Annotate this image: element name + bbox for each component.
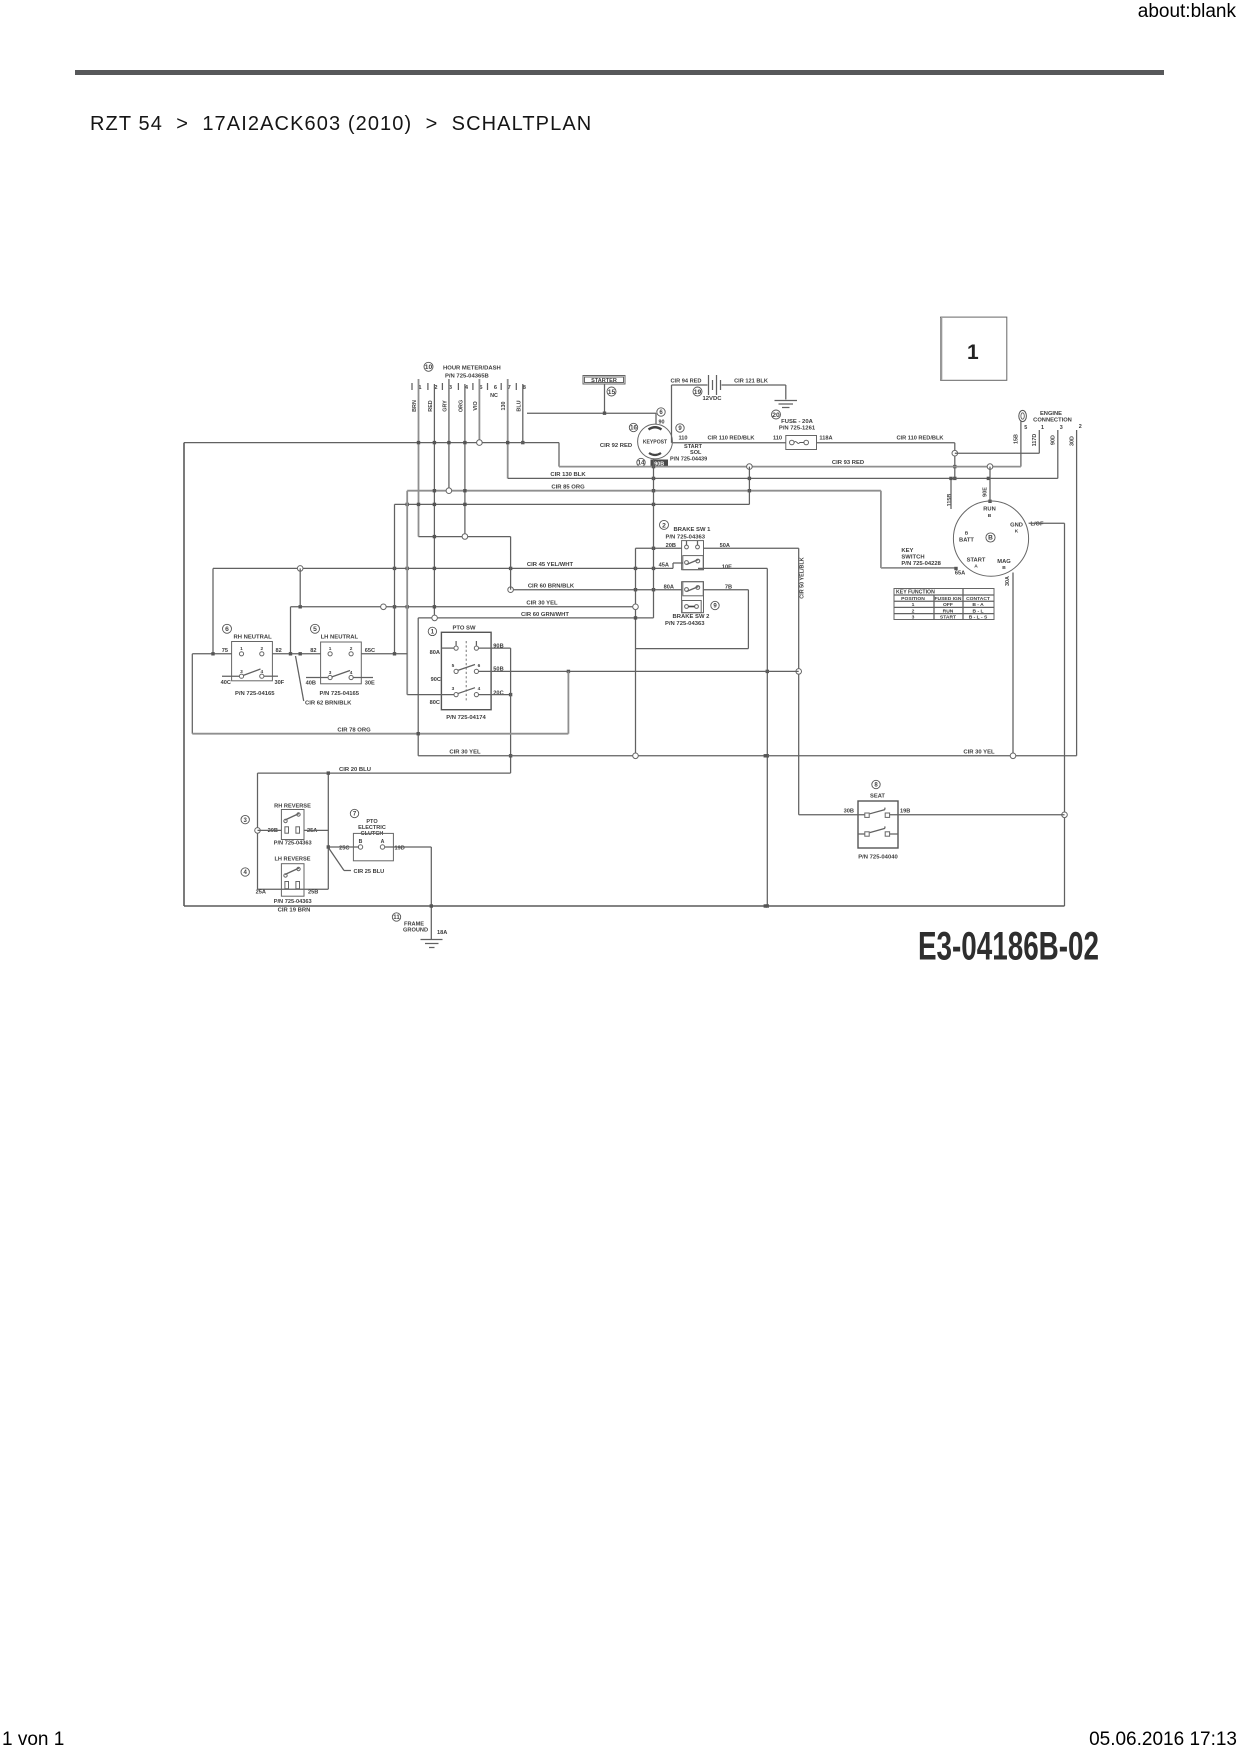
svg-text:12VDC: 12VDC: [703, 396, 723, 402]
svg-text:P/N 725-1261: P/N 725-1261: [779, 426, 816, 432]
svg-text:BRAKE SW 1: BRAKE SW 1: [674, 527, 712, 533]
svg-text:2: 2: [1079, 424, 1082, 430]
svg-text:9: 9: [678, 426, 682, 432]
svg-text:30A: 30A: [1005, 576, 1011, 586]
svg-text:5: 5: [313, 626, 317, 633]
svg-text:START: START: [940, 615, 956, 621]
svg-text:4: 4: [350, 670, 353, 676]
svg-text:130: 130: [501, 401, 507, 410]
svg-text:CIR 92 RED: CIR 92 RED: [600, 443, 632, 449]
svg-text:ORG: ORG: [458, 400, 464, 412]
svg-text:GROUND: GROUND: [403, 928, 428, 934]
svg-text:CIR 110 RED/BLK: CIR 110 RED/BLK: [707, 436, 755, 442]
svg-text:B: B: [988, 513, 992, 519]
svg-text:1: 1: [431, 630, 435, 636]
svg-text:65A: 65A: [955, 571, 965, 577]
svg-text:BRAKE SW 2: BRAKE SW 2: [673, 614, 711, 620]
svg-text:GND: GND: [1010, 523, 1023, 529]
svg-text:B: B: [988, 535, 993, 542]
svg-text:3: 3: [329, 670, 332, 676]
svg-text:9: 9: [713, 604, 717, 610]
svg-text:BRN: BRN: [412, 400, 418, 412]
svg-text:16: 16: [630, 426, 637, 432]
svg-text:90E: 90E: [983, 487, 989, 497]
svg-text:7: 7: [353, 812, 357, 818]
svg-text:KEY FUNCTION: KEY FUNCTION: [896, 590, 935, 596]
svg-text:NC: NC: [490, 393, 498, 399]
svg-text:3: 3: [244, 818, 248, 824]
svg-text:20: 20: [772, 412, 780, 419]
svg-text:110: 110: [678, 436, 687, 442]
svg-text:40B: 40B: [306, 681, 316, 687]
svg-text:30F: 30F: [275, 680, 285, 686]
svg-text:1: 1: [240, 646, 243, 652]
svg-text:19: 19: [694, 389, 702, 396]
svg-text:18A: 18A: [437, 930, 447, 936]
svg-text:VIO: VIO: [473, 401, 479, 410]
svg-text:2: 2: [350, 646, 353, 652]
svg-text:SWITCH: SWITCH: [901, 555, 924, 561]
svg-text:65C: 65C: [365, 648, 375, 654]
svg-text:L/OF: L/OF: [1030, 522, 1044, 528]
svg-text:CIR 50 YEL/BLK: CIR 50 YEL/BLK: [800, 557, 806, 598]
svg-text:PTO SW: PTO SW: [452, 626, 476, 632]
svg-text:CIR 30 YEL: CIR 30 YEL: [449, 750, 481, 756]
svg-text:6: 6: [659, 410, 663, 416]
svg-text:CIR 60 GRN/WHT: CIR 60 GRN/WHT: [521, 612, 569, 618]
svg-text:B: B: [1002, 565, 1006, 571]
svg-text:115B: 115B: [947, 494, 953, 507]
svg-text:BATT: BATT: [959, 538, 974, 544]
svg-text:CIR 78 ORG: CIR 78 ORG: [337, 728, 371, 734]
svg-text:CIR 93 RED: CIR 93 RED: [832, 460, 864, 466]
svg-text:SOL: SOL: [690, 450, 702, 456]
svg-text:25A: 25A: [256, 890, 266, 896]
svg-text:15: 15: [608, 389, 616, 396]
svg-text:4: 4: [478, 686, 481, 692]
svg-text:OFF: OFF: [943, 602, 953, 608]
svg-text:P/N 725-04363: P/N 725-04363: [274, 841, 312, 847]
svg-text:P/N 725-04363: P/N 725-04363: [274, 899, 312, 905]
svg-text:P/N 725-04365B: P/N 725-04365B: [445, 374, 489, 380]
svg-text:3: 3: [240, 669, 243, 675]
svg-text:RH NEUTRAL: RH NEUTRAL: [234, 635, 273, 641]
svg-text:90C: 90C: [431, 677, 441, 683]
svg-text:117D: 117D: [1032, 434, 1038, 447]
svg-text:FUSED IGN: FUSED IGN: [935, 596, 962, 602]
svg-text:90D: 90D: [1051, 435, 1057, 445]
svg-text:4: 4: [244, 870, 248, 876]
svg-text:RED: RED: [428, 400, 434, 412]
svg-text:40C: 40C: [221, 680, 231, 686]
svg-text:P/N 725-04228: P/N 725-04228: [901, 561, 941, 567]
svg-text:P/N 725-04165: P/N 725-04165: [235, 691, 275, 697]
svg-text:15B: 15B: [1014, 434, 1020, 444]
svg-text:1: 1: [967, 341, 979, 364]
svg-text:45A: 45A: [659, 563, 669, 569]
svg-text:CIR 62 BRN/BLK: CIR 62 BRN/BLK: [305, 701, 352, 707]
svg-text:P/N 725-04439: P/N 725-04439: [670, 457, 707, 463]
svg-text:SEAT: SEAT: [870, 794, 885, 800]
svg-text:RH REVERSE: RH REVERSE: [274, 804, 311, 810]
svg-text:B - L - S: B - L - S: [969, 615, 988, 621]
svg-text:MAG: MAG: [997, 559, 1011, 565]
svg-text:1: 1: [329, 646, 332, 652]
svg-text:CIR 94 RED: CIR 94 RED: [670, 379, 701, 385]
svg-text:HOUR METER/DASH: HOUR METER/DASH: [443, 366, 501, 372]
svg-text:10E: 10E: [722, 565, 732, 571]
svg-text:110: 110: [773, 436, 782, 442]
svg-text:E3-04186B-02: E3-04186B-02: [918, 925, 1099, 969]
svg-text:1: 1: [1041, 425, 1044, 431]
svg-text:3: 3: [452, 686, 455, 692]
svg-text:CIR 25 BLU: CIR 25 BLU: [354, 869, 385, 875]
svg-text:2: 2: [912, 608, 915, 614]
svg-text:GRY: GRY: [442, 400, 448, 412]
svg-text:POSITION: POSITION: [901, 596, 925, 602]
svg-text:CIR 85 ORG: CIR 85 ORG: [551, 485, 585, 491]
svg-text:82: 82: [276, 648, 282, 654]
svg-text:B: B: [359, 839, 363, 845]
svg-text:6: 6: [494, 385, 497, 391]
svg-text:1: 1: [912, 602, 915, 608]
svg-text:CIR 30 YEL: CIR 30 YEL: [526, 601, 558, 607]
svg-text:6: 6: [478, 663, 481, 669]
svg-text:2: 2: [662, 522, 666, 529]
svg-text:CIR 130 BLK: CIR 130 BLK: [550, 472, 586, 478]
svg-text:RUN: RUN: [983, 507, 995, 513]
svg-text:CLUTCH: CLUTCH: [361, 831, 384, 837]
svg-text:CIR 121 BLK: CIR 121 BLK: [734, 379, 769, 385]
svg-text:CIR 30 YEL: CIR 30 YEL: [963, 750, 995, 756]
svg-text:25B: 25B: [308, 890, 318, 896]
svg-text:A: A: [381, 839, 385, 845]
svg-text:START: START: [967, 558, 986, 564]
svg-text:118A: 118A: [819, 436, 832, 442]
svg-text:6: 6: [225, 626, 229, 633]
svg-text:B - A: B - A: [972, 602, 984, 608]
svg-text:LH NEUTRAL: LH NEUTRAL: [321, 635, 359, 641]
svg-text:P/N 725-04165: P/N 725-04165: [320, 691, 360, 697]
svg-text:2: 2: [260, 646, 263, 652]
svg-text:80C: 80C: [430, 700, 440, 706]
svg-text:K: K: [1015, 529, 1019, 535]
svg-text:3: 3: [912, 615, 915, 621]
svg-text:82: 82: [310, 648, 316, 654]
svg-text:ENGINE: ENGINE: [1040, 411, 1062, 417]
svg-text:STARTER: STARTER: [591, 378, 617, 384]
svg-text:KEYPOST: KEYPOST: [643, 440, 668, 446]
svg-text:CIR 110 RED/BLK: CIR 110 RED/BLK: [896, 436, 944, 442]
svg-text:3: 3: [1060, 425, 1063, 431]
svg-text:LH REVERSE: LH REVERSE: [274, 857, 310, 863]
svg-text:P/N 725-04363: P/N 725-04363: [666, 535, 706, 541]
svg-text:80A: 80A: [430, 650, 440, 656]
svg-text:11: 11: [393, 915, 400, 921]
svg-text:19B: 19B: [900, 809, 910, 815]
svg-text:CIR 60 BRN/BLK: CIR 60 BRN/BLK: [528, 584, 575, 590]
svg-text:CONTACT: CONTACT: [966, 596, 990, 602]
svg-text:P/N 725-04174: P/N 725-04174: [446, 715, 486, 721]
svg-text:FUSE - 20A: FUSE - 20A: [781, 419, 813, 425]
svg-text:30E: 30E: [365, 681, 375, 687]
svg-text:P/N 725-04363: P/N 725-04363: [665, 621, 705, 627]
svg-text:CIR 45 YEL/WHT: CIR 45 YEL/WHT: [527, 562, 574, 568]
svg-text:CIR 20 BLU: CIR 20 BLU: [339, 767, 371, 773]
svg-text:B - L: B - L: [972, 608, 983, 614]
svg-text:20C: 20C: [493, 691, 503, 697]
svg-text:4: 4: [260, 669, 263, 675]
svg-text:P/N 725-04040: P/N 725-04040: [858, 855, 898, 861]
svg-text:KEY: KEY: [901, 548, 913, 554]
svg-text:A: A: [974, 564, 978, 570]
svg-text:5: 5: [1024, 425, 1027, 431]
svg-text:RUN: RUN: [943, 608, 954, 614]
svg-text:75: 75: [222, 648, 228, 654]
svg-text:CONNECTION: CONNECTION: [1033, 418, 1072, 424]
svg-text:B: B: [965, 531, 969, 537]
svg-text:30B: 30B: [844, 809, 854, 815]
svg-text:30D: 30D: [1070, 436, 1076, 446]
svg-text:BLU: BLU: [516, 400, 522, 411]
svg-text:5: 5: [452, 663, 455, 669]
svg-text:CIR 19 BRN: CIR 19 BRN: [278, 908, 311, 914]
svg-text:10: 10: [425, 364, 433, 371]
svg-text:8: 8: [874, 783, 878, 789]
